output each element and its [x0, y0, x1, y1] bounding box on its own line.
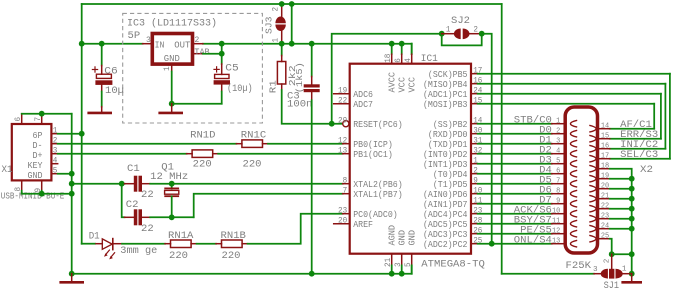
LED D1 cathode bar: [112, 239, 114, 250]
svg-text:2: 2: [473, 25, 478, 34]
wire gnd drop to C2: [122, 184, 125, 218]
wire IC1 to X2 row: [478, 183, 552, 185]
wire IC1 to X2 row: [478, 153, 552, 155]
pin 2 stub X1: [51, 143, 57, 145]
crystal Q1 body: [165, 190, 179, 194]
IC1 pin 13 (PB1(OC1)) stub: [343, 153, 350, 155]
wire C6 top: [101, 44, 103, 66]
node shield join: [69, 191, 75, 197]
svg-text:F25K: F25K: [566, 261, 592, 272]
svg-text:5: 5: [53, 167, 58, 176]
svg-text:RN1C: RN1C: [241, 131, 266, 142]
node GND rail left: [69, 271, 75, 277]
IC1 pin 14 ((SS)PB2) stub: [471, 123, 478, 125]
svg-text:2: 2: [604, 258, 612, 263]
wire rail up to IC pin5: [411, 265, 413, 273]
LED D1 cathode pin: [113, 243, 122, 245]
svg-text:23: 23: [338, 207, 347, 216]
X2 pin 10 stub: [552, 213, 566, 215]
svg-text:ONL/S4: ONL/S4: [514, 234, 552, 246]
capacitor C5 negative plate: [214, 80, 230, 84]
svg-text:3: 3: [53, 147, 58, 156]
X2 contact 14: [589, 125, 596, 132]
IC1 pin 23 (PC0(ADC0)) stub: [343, 213, 350, 215]
X2 contact 16: [589, 145, 596, 152]
capacitor C5 positive plate: [215, 74, 229, 78]
wire IC1 to X2 row: [478, 203, 552, 205]
svg-text:25: 25: [601, 232, 610, 240]
wire SJ2 left leg: [332, 34, 442, 124]
X2 pin 24 stub: [598, 228, 610, 230]
wire RN1D to PB1: [218, 153, 343, 155]
capacitor C6 positive plate: [96, 74, 111, 78]
IC1 pin 10 ((AIN0)PD6) stub: [471, 193, 478, 195]
connector X1 body: [12, 124, 52, 180]
resistor RN1C body: [242, 140, 263, 148]
solder jumper SJ3 lower pad: [275, 25, 285, 31]
svg-text:RN1A: RN1A: [168, 231, 193, 242]
svg-text:13: 13: [552, 238, 561, 246]
wire X2 pin14 feed: [610, 128, 655, 130]
regulator TAB stub: [192, 53, 203, 55]
node C1/C2 gnd branch: [119, 181, 125, 187]
svg-text:21: 21: [384, 258, 393, 267]
wire 5V bottom run to SJ1 pin3: [502, 273, 594, 275]
wire 5V left drop to VCC rail: [81, 4, 83, 44]
svg-text:(MOSI)PB3: (MOSI)PB3: [423, 100, 468, 110]
svg-text:6: 6: [556, 168, 561, 176]
wire SPI net to X2 right: [478, 73, 670, 75]
pin 6 stub (shield): [21, 114, 23, 124]
pin 8 stub (shield): [21, 180, 23, 190]
svg-text:4: 4: [556, 148, 561, 156]
wire pin8 drop: [41, 191, 43, 194]
svg-text:22: 22: [141, 224, 154, 235]
X2 pin 12 stub: [552, 233, 566, 235]
pin 9 stub (shield): [41, 180, 43, 190]
svg-text:1: 1: [271, 38, 280, 43]
svg-text:(SCK)PB5: (SCK)PB5: [428, 70, 468, 80]
wire RN1B to PC0: [248, 214, 343, 244]
X2 contact 5: [570, 160, 577, 167]
svg-text:4: 4: [53, 157, 58, 166]
wire IC1 to X2 row: [478, 143, 552, 145]
svg-text:17: 17: [601, 152, 609, 160]
wire gnd column cross link: [612, 253, 632, 255]
wire column drop 2: [664, 84, 666, 149]
svg-text:1: 1: [446, 25, 451, 34]
svg-text:C6: C6: [104, 67, 118, 78]
wire XTAL1 bend: [194, 194, 343, 218]
svg-text:C1: C1: [127, 164, 140, 175]
X2 contact 23: [589, 215, 596, 222]
crystal Q1 top lead: [171, 184, 173, 189]
svg-text:21: 21: [601, 192, 610, 200]
IC1 pin 12 (PB0(ICP)) stub: [343, 143, 350, 145]
node VCC rail: [399, 41, 405, 47]
X2 contact 1: [570, 120, 577, 127]
IC1 pin 7 (XTAL1(PB7)) stub: [343, 193, 350, 195]
capacitor C2 left plate: [134, 209, 138, 225]
wire VBUS to LED: [82, 243, 95, 245]
resistor RN1D right pin: [213, 153, 219, 155]
IC1 pin 6 (VCC) top stub: [401, 44, 403, 55]
IC1 pin 21 (AGND) bottom stub: [391, 254, 393, 266]
node gnd column 24: [629, 226, 635, 232]
capacitor C1 right pin: [142, 183, 150, 185]
svg-text:6P: 6P: [33, 131, 43, 141]
wire C1 to XTAL2 row: [150, 183, 343, 185]
svg-text:AREF: AREF: [353, 220, 373, 230]
svg-text:2: 2: [556, 128, 561, 136]
solder jumper SJ3 upper pad: [275, 17, 285, 24]
X2 pin 2 stub: [552, 133, 566, 135]
wire VBUS vertical x=81.7: [81, 44, 83, 244]
capacitor C1 left pin: [125, 183, 134, 185]
pin 7 stub (shield): [41, 114, 43, 124]
wire 5V right drop to SJ1: [501, 4, 503, 274]
node tie bottom: [289, 41, 295, 47]
wire gnd row to C1: [72, 183, 125, 185]
svg-text:RESET(PC6): RESET(PC6): [353, 120, 403, 130]
resistor R1 body: [277, 62, 285, 85]
regulator pin 2 stub OUT: [192, 43, 203, 45]
svg-text:10µ: 10µ: [105, 86, 124, 97]
wire R1 top: [281, 44, 283, 56]
pin 4 stub X1: [51, 163, 57, 165]
IC1 pin 31 ((TXD)PD1) stub: [471, 143, 478, 145]
wire RN1A to RN1B: [197, 243, 216, 245]
IC1 pin 9 ((T1)PD5) stub: [471, 183, 478, 185]
wire D+ to RN1D: [58, 153, 187, 155]
solder jumper SJ1 right pad: [616, 269, 623, 279]
X2 pin 19 stub: [598, 178, 610, 180]
X2 contact 12: [570, 230, 577, 237]
svg-text:(AIN1)PD7: (AIN1)PD7: [423, 200, 468, 210]
svg-text:220: 220: [169, 251, 188, 262]
svg-text:5: 5: [556, 158, 561, 166]
svg-text:(T1)PD5: (T1)PD5: [433, 180, 468, 190]
X2 pin 7 stub: [552, 183, 566, 185]
wire TAB to riser: [203, 53, 222, 55]
IC1 pin 22 (ADC7) stub: [334, 103, 350, 105]
X2 pin 6 stub: [552, 173, 566, 175]
node tie top: [289, 1, 295, 7]
pin 5 stub X1: [51, 173, 57, 175]
solder jumper SJ3 pin2 stub: [281, 4, 283, 17]
svg-text:15: 15: [601, 132, 610, 140]
node gnd column 23: [629, 216, 635, 222]
svg-text:19: 19: [601, 172, 610, 180]
capacitor C1 right plate: [139, 176, 143, 192]
node SJ2 pin2: [479, 31, 485, 37]
X2 pin 11 stub: [552, 223, 566, 225]
svg-text:11: 11: [552, 218, 561, 226]
crystal Q1 top plate: [165, 187, 178, 189]
wire 3V3 rail from regulator OUT to IC1: [203, 43, 412, 45]
IC1 pin 25 ((ADC2)PC2) stub: [471, 243, 478, 245]
svg-text:GND: GND: [408, 230, 418, 246]
wire regulator GND down: [171, 72, 173, 104]
IC1 pin 2 ((T0)PD4) stub: [471, 173, 478, 175]
wire GND vertical at x=71.7: [71, 114, 73, 274]
svg-text:(T0)PD4: (T0)PD4: [433, 170, 468, 180]
LED D1 arrow 2: [111, 252, 115, 257]
svg-text:ADC7: ADC7: [353, 100, 373, 110]
svg-text:VCC: VCC: [398, 77, 408, 93]
X2 contact 3: [570, 140, 577, 147]
IC1 pin 26 ((ADC3)PC3) stub: [471, 233, 478, 235]
node gnd column 22: [629, 206, 635, 212]
frame IC3 dashed box: [123, 13, 263, 123]
svg-text:6: 6: [394, 58, 403, 63]
IC1 pin 30 ((RXD)PD0) stub: [471, 133, 478, 135]
wire C5 bottom to GND node: [172, 103, 222, 105]
wire X1 GND pin5 to vertical: [58, 173, 72, 175]
wire X2 pin17 feed: [610, 158, 670, 160]
resistor RN1D left pin: [187, 153, 193, 155]
svg-text:(ADC3)PC3: (ADC3)PC3: [423, 230, 468, 240]
resistor R1 top stub: [281, 56, 283, 62]
X2 contact 2: [570, 130, 577, 137]
ground symbol under regulator: [171, 104, 173, 112]
svg-text:1: 1: [163, 66, 172, 71]
wire IC1 to X2 row: [478, 233, 552, 235]
svg-text:GND: GND: [398, 230, 408, 246]
node SJ1 pin1: [629, 271, 635, 277]
svg-text:C5: C5: [225, 63, 239, 74]
wire C2 to Q1 bottom: [150, 216, 194, 218]
node SJ1 pin2 link: [609, 251, 615, 257]
svg-text:6: 6: [14, 117, 23, 122]
node RESET/SJ2 branch: [329, 121, 335, 127]
svg-text:(INT0)PD2: (INT0)PD2: [423, 150, 468, 160]
svg-text:22: 22: [141, 190, 154, 201]
svg-text:OUT: OUT: [174, 40, 190, 50]
node gnd column 21: [629, 196, 635, 202]
svg-text:(RXD)PD0: (RXD)PD0: [428, 130, 468, 140]
svg-text:(ADC5)PC5: (ADC5)PC5: [423, 220, 468, 230]
svg-text:TAB: TAB: [194, 47, 209, 57]
node SJ3 bottom: [279, 41, 285, 47]
wire 5V-to-rail2 tie at x=291.7: [291, 4, 293, 44]
X2 contact 7: [570, 180, 577, 187]
X2 pin 4 stub: [552, 153, 566, 155]
node SJ2 tap on ONL/S4: [489, 241, 495, 247]
capacitor C2 right pin: [142, 216, 150, 218]
node Q1 top: [169, 181, 175, 187]
svg-text:8: 8: [343, 177, 348, 186]
capacitor C2 left pin: [125, 216, 134, 218]
wire IC1 to X2 row: [478, 213, 552, 215]
X2 pin 17 stub: [598, 158, 610, 160]
wire X2 pin15 feed: [610, 138, 661, 140]
IC1 pin 5 (GND) bottom stub: [411, 254, 413, 266]
svg-text:(TXD)PD1: (TXD)PD1: [428, 140, 468, 150]
resistor RN1B right pin: [242, 243, 248, 245]
wire R1 to RESET: [282, 90, 343, 124]
IC1 pin 11 ((AIN1)PD7) stub: [471, 203, 478, 205]
svg-text:IC1: IC1: [421, 54, 438, 65]
wire pin19 to gnd column: [610, 178, 632, 180]
svg-text:SJ3: SJ3: [265, 17, 275, 35]
pin 3 stub X1: [51, 153, 57, 155]
solder jumper SJ2 pin1 stub: [442, 33, 455, 35]
svg-text:ATMEGA8-TQ: ATMEGA8-TQ: [421, 259, 485, 270]
wire X2 pin16 feed: [610, 148, 666, 150]
X2 contact 17: [589, 155, 596, 162]
svg-text:(ADC2)PC2: (ADC2)PC2: [423, 240, 468, 250]
svg-text:22: 22: [338, 97, 347, 106]
X2 contact 20: [589, 185, 596, 192]
wire C6 bottom: [101, 85, 103, 92]
svg-text:2: 2: [53, 137, 58, 146]
wire C3 bottom: [311, 92, 313, 100]
svg-text:PB0(ICP): PB0(ICP): [353, 140, 393, 150]
node C3 rail: [309, 41, 315, 47]
X2 pin 21 stub: [598, 198, 610, 200]
wire pin18 into gnd column: [610, 169, 632, 255]
X2 pin 18 stub: [598, 168, 610, 170]
X2 contact 6: [570, 170, 577, 177]
regulator GND pin 1 stub: [171, 64, 173, 72]
svg-text:18: 18: [601, 162, 610, 170]
svg-text:1: 1: [556, 118, 561, 126]
solder jumper SJ1 center pad: [609, 269, 614, 279]
wire TAB riser to rail: [221, 44, 223, 54]
wire IC1 to X2 row: [478, 123, 552, 125]
X2 pin 1 stub: [552, 123, 566, 125]
svg-text:220: 220: [193, 160, 212, 171]
wire shield top: [22, 113, 72, 115]
resistor RN1D body: [192, 150, 213, 158]
svg-text:1: 1: [622, 266, 627, 274]
ground symbol bottom left: [71, 274, 73, 282]
wire SJ2 right leg: [482, 34, 492, 244]
crystal Q1 bottom plate: [165, 195, 178, 197]
svg-text:SJ1: SJ1: [604, 281, 620, 290]
svg-text:22: 22: [601, 202, 610, 210]
solder jumper SJ3 pin1 stub: [281, 31, 283, 44]
LED D1 arrow 1: [106, 250, 110, 255]
svg-text:(MISO)PB4: (MISO)PB4: [423, 80, 468, 90]
wire column drop 3: [660, 94, 662, 139]
svg-text:20: 20: [601, 182, 610, 190]
IC1 pin 1 ((INT1)PD3) stub: [471, 163, 478, 165]
X2 pin 14 stub: [598, 128, 610, 130]
wire pin20 to gnd column: [610, 188, 632, 190]
svg-text:(AIN0)PD6: (AIN0)PD6: [423, 190, 468, 200]
wire SPI net to X2 right: [478, 103, 655, 105]
svg-text:X1: X1: [2, 165, 13, 176]
X2 pin 8 stub: [552, 193, 566, 195]
solder jumper SJ2 left pad: [454, 29, 461, 40]
svg-text:VCC: VCC: [408, 77, 418, 93]
X2 pin 20 stub: [598, 188, 610, 190]
X2 contact 15: [589, 135, 596, 142]
resistor RN1B body: [222, 240, 243, 248]
X2 contact 21: [589, 195, 596, 202]
wire column drop 1: [669, 74, 671, 159]
node AGND rail: [389, 271, 395, 277]
svg-text:12 MHz: 12 MHz: [150, 172, 188, 183]
X2 pin 9 stub: [552, 203, 566, 205]
X2 pin 3 stub: [552, 143, 566, 145]
capacitor C6 plus sign: [92, 69, 97, 71]
wire IC1 to X2 row: [478, 173, 552, 175]
svg-text:18: 18: [384, 53, 393, 62]
svg-text:23: 23: [601, 212, 610, 220]
node gnd column 20: [629, 186, 635, 192]
solder jumper SJ2 bypass loop: [442, 34, 482, 46]
node GND branch to C1/C2: [69, 181, 75, 187]
X2 contact 8: [570, 190, 577, 197]
X2 pin 22 stub: [598, 208, 610, 210]
X2 pin 13 stub: [552, 243, 566, 245]
IC U1 ATMEGA8 body: [350, 64, 471, 254]
capacitor C1 left plate: [134, 176, 138, 192]
svg-text:XTAL2(PB6): XTAL2(PB6): [353, 180, 403, 190]
IC1 pin 16 ((MISO)PB4) stub: [471, 83, 478, 85]
ground symbol under C6: [101, 107, 103, 112]
wire C3 top: [311, 44, 313, 77]
wire IC1 to X2 row: [478, 243, 552, 245]
svg-text:AVCC: AVCC: [388, 72, 398, 93]
svg-text:3: 3: [394, 262, 403, 267]
resistor RN1C left pin: [236, 143, 242, 145]
svg-text:14: 14: [601, 122, 610, 130]
node C3 gnd: [309, 271, 315, 277]
node GND pin5: [69, 171, 75, 177]
IC1 pin 29 (RESET(PC6)) stub: [348, 123, 351, 125]
node rail2 left junction: [79, 41, 85, 47]
wire SPI net to X2 right: [478, 83, 666, 85]
node gnd column 19: [629, 176, 635, 182]
svg-text:9: 9: [556, 198, 561, 206]
svg-text:13: 13: [338, 147, 347, 156]
X2 pin 5 stub: [552, 163, 566, 165]
node AVCC rail: [389, 41, 395, 47]
node TAB: [219, 51, 225, 57]
wire pin23 to gnd column: [610, 218, 632, 220]
capacitor C6 negative plate: [95, 80, 112, 85]
pin 1 stub X1: [51, 133, 57, 135]
X2 contact 9: [570, 200, 577, 207]
X2 pin 25 stub: [598, 238, 610, 240]
svg-text:(10µ): (10µ): [227, 83, 253, 95]
node pin7 junction: [39, 111, 45, 117]
IC1 pin 19 (ADC6) stub: [334, 93, 350, 95]
svg-text:1: 1: [53, 127, 58, 136]
svg-text:D+: D+: [33, 151, 43, 161]
IC1 pin 17 ((SCK)PB5) stub: [471, 73, 478, 75]
solder jumper SJ1 left pad: [601, 269, 608, 279]
svg-text:19: 19: [338, 87, 347, 96]
svg-text:IN: IN: [155, 40, 165, 50]
wire column drop 4: [653, 104, 655, 129]
IC1 pin 23 ((ADC4)PC4) stub: [471, 213, 478, 215]
node C6 rail: [99, 41, 105, 47]
IC1 pin 4 (VCC) top stub: [411, 44, 413, 55]
svg-text:IC3 (LD1117S33): IC3 (LD1117S33): [127, 17, 217, 29]
svg-text:29: 29: [338, 117, 347, 126]
solder jumper SJ1 pin1 stub: [623, 273, 632, 275]
svg-text:(ADC4)PC4: (ADC4)PC4: [423, 210, 468, 220]
svg-text:AGND: AGND: [388, 225, 398, 246]
svg-text:100n: 100n: [287, 100, 312, 111]
svg-text:D1: D1: [89, 231, 100, 242]
IC1 pin 28 ((ADC5)PC5) stub: [471, 223, 478, 225]
